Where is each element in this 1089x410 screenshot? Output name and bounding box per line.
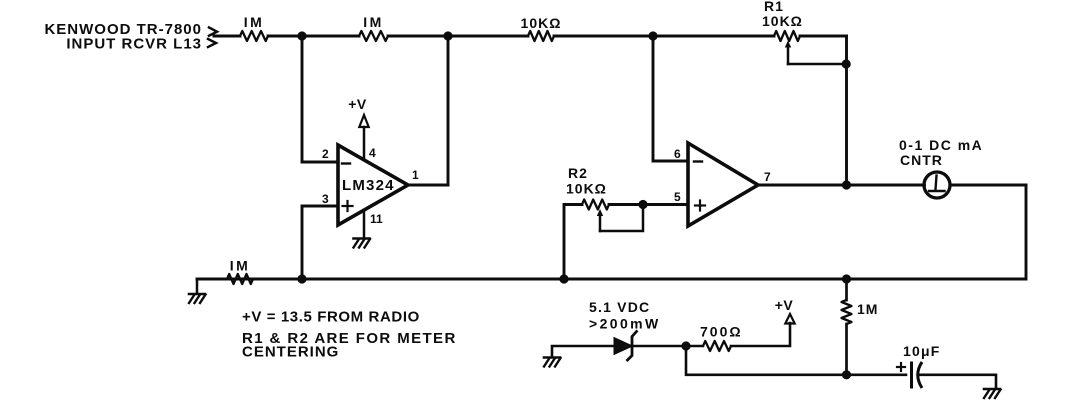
node right leg rail junction <box>842 274 851 283</box>
svg-text:LM324: LM324 <box>342 177 395 194</box>
svg-text:1: 1 <box>412 168 419 182</box>
wire R1 wiper to right leg <box>788 63 847 66</box>
wire pin3 down to bottom rail <box>302 206 338 279</box>
ground (zener anode) <box>544 358 561 367</box>
U1A minus sign <box>342 162 350 164</box>
svg-text:1M: 1M <box>857 301 878 317</box>
svg-text:10KΩ: 10KΩ <box>762 13 803 29</box>
U1B output wire pin7 <box>758 184 925 187</box>
wire rail to R-1M-V <box>845 279 848 300</box>
svg-text:CNTR: CNTR <box>900 152 943 168</box>
node R1 wiper junction <box>842 59 851 68</box>
zener diode D1 triangle <box>614 338 633 355</box>
meter M1 needle <box>929 176 945 192</box>
potentiometer R2 10K body <box>582 200 609 210</box>
U1A plus sign <box>343 201 353 211</box>
wire node to R-700 <box>686 345 703 348</box>
svg-text:R2: R2 <box>568 165 588 181</box>
svg-text:IM: IM <box>230 258 251 274</box>
wire zener node down to cap node <box>686 346 906 375</box>
zener diode D1 cathode bar <box>628 332 637 361</box>
wire meter to right leg <box>950 184 1026 187</box>
svg-text:CENTERING: CENTERING <box>242 344 339 361</box>
resistor 1M (feedback B) <box>359 31 388 41</box>
op-amp U1A LM324 triangle <box>338 145 408 225</box>
node B junction (x=448 top) <box>443 31 452 40</box>
svg-text:+V: +V <box>775 297 794 313</box>
svg-text:R1: R1 <box>764 0 784 14</box>
U1B plus sign <box>695 201 705 211</box>
node C junction (x=653 top) <box>648 31 657 40</box>
svg-text:10μF: 10μF <box>903 343 941 359</box>
svg-text:3: 3 <box>322 192 329 206</box>
svg-text:IM: IM <box>244 14 265 30</box>
svg-text:11: 11 <box>370 212 383 226</box>
wire R2 left leg <box>564 205 582 280</box>
input terminal chevron (line 2) <box>208 39 216 47</box>
potentiometer R1 10K body <box>774 31 800 41</box>
svg-text:7: 7 <box>764 170 771 184</box>
resistor 1M (vertical) <box>842 300 852 324</box>
ground (bottom rail left) <box>189 294 206 303</box>
resistor 1M (input series A) <box>240 31 268 41</box>
resistor 700 ohm <box>703 341 731 351</box>
svg-text:5.1 VDC: 5.1 VDC <box>589 299 650 315</box>
svg-text:10KΩ: 10KΩ <box>566 181 607 197</box>
op-amp U1B triangle <box>688 143 758 226</box>
wire pin4 to +V <box>363 127 366 160</box>
U1A output wire pin1 <box>408 184 448 187</box>
svg-text:2: 2 <box>322 147 329 161</box>
svg-text:4: 4 <box>369 146 376 160</box>
resistor 10K ohm (interstage) <box>528 31 554 41</box>
svg-text:10KΩ: 10KΩ <box>521 15 562 31</box>
wire right leg down to U1B output <box>845 36 848 185</box>
meter M1 circle <box>924 172 950 198</box>
wire bottom-left stub <box>196 279 199 293</box>
R1 wiper arrow <box>785 41 791 65</box>
+V arrow (supply out) <box>785 314 794 324</box>
wire R-1M-B to R-10K <box>388 35 528 38</box>
capacitor C1 positive plate <box>910 363 913 387</box>
svg-text:INPUT RCVR L13: INPUT RCVR L13 <box>66 36 202 53</box>
wire R-10K to R1 pot <box>554 35 774 38</box>
wire R-1M-A to R-1M-B <box>268 35 359 38</box>
svg-text:6: 6 <box>674 147 681 161</box>
node zener junction <box>681 341 690 350</box>
wire input to R-1M-A <box>214 35 240 38</box>
node R2 bottom junction <box>559 274 568 283</box>
node output junction (846,185) <box>842 180 851 189</box>
svg-text:+V: +V <box>348 96 367 112</box>
wire node B down to U1A output <box>447 36 450 185</box>
svg-text:0-1 DC mA: 0-1 DC mA <box>899 137 983 153</box>
resistor 1M (bottom rail) <box>227 274 253 284</box>
+V arrow (U1A supply) <box>359 115 368 127</box>
node R2 wiper junction <box>638 200 647 209</box>
wire pin11 to ground <box>363 210 366 237</box>
svg-text:+V = 13.5 FROM RADIO: +V = 13.5 FROM RADIO <box>242 309 420 326</box>
node pin3 rail junction <box>297 274 306 283</box>
wire cap to ground <box>920 375 996 389</box>
svg-text:700Ω: 700Ω <box>700 324 743 340</box>
wire top rail right end <box>800 35 847 38</box>
ground (capacitor) <box>984 389 1001 398</box>
wire R2 to pin5 <box>609 203 688 206</box>
R2 wiper arrow <box>597 209 603 231</box>
wire node A down to pin2 <box>302 36 338 162</box>
node A junction (x=302 top) <box>297 31 306 40</box>
capacitor C1 plus sign <box>897 363 905 371</box>
wire zener to node <box>633 345 687 348</box>
svg-text:>200mW: >200mW <box>589 316 661 332</box>
wire node C down to pin6 <box>653 36 688 161</box>
wire ground to zener <box>552 346 614 357</box>
node cap junction <box>842 370 851 379</box>
ground (U1A pin 11) <box>354 239 371 248</box>
wire meter loop right+bottom rail <box>197 185 1026 279</box>
capacitor C1 negative plate <box>918 362 922 388</box>
svg-text:IM: IM <box>363 14 384 30</box>
input terminal chevron (line 1) <box>209 28 217 36</box>
wire R2 wiper loop <box>600 205 643 232</box>
wire R-700 to +V <box>731 323 790 346</box>
svg-text:5: 5 <box>674 190 681 204</box>
U1B minus sign <box>694 160 702 162</box>
wire R-1M-V to cap node <box>845 324 848 375</box>
